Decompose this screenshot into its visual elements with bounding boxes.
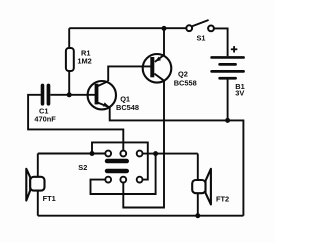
- wire Q1 base: [69, 94, 96, 96]
- svg-text:FT1: FT1: [43, 194, 56, 203]
- transistor Q1 internals: [95, 81, 110, 107]
- wire crossover A3 to B1: [91, 154, 156, 194]
- resistor R1: [66, 28, 74, 95]
- node rail junction: [162, 26, 167, 31]
- svg-text:BC548: BC548: [116, 103, 139, 112]
- node FT2 branch junction: [153, 151, 158, 156]
- speaker FT1: [26, 169, 44, 201]
- wire top rail V+: [69, 27, 189, 29]
- svg-text:FT2: FT2: [216, 194, 229, 203]
- label S2: [78, 163, 87, 172]
- wire right branch to bottom rail: [228, 120, 244, 215]
- label Q1 value: [116, 95, 139, 113]
- wire Q1 emitter rail: [110, 107, 228, 120]
- wire FT1 branch: [37, 154, 39, 216]
- svg-text:3V: 3V: [235, 89, 244, 98]
- transistor Q2: [143, 54, 172, 83]
- capacitor C1: [41, 84, 69, 106]
- switch S2: [105, 151, 143, 183]
- transistor Q2 internals: [150, 55, 164, 81]
- label Q2 value: [174, 70, 197, 88]
- switch S1: [186, 20, 214, 31]
- label C1 value: [34, 107, 56, 124]
- wire crossover A1 to B3: [92, 142, 148, 179]
- wire Q2 emitter to rail: [163, 28, 165, 56]
- wire Q1 collector to Q2 base: [108, 66, 150, 81]
- label R1 value: [77, 49, 91, 66]
- svg-text:S2: S2: [78, 163, 87, 172]
- node FT2 bottom junction: [195, 213, 200, 218]
- wire S1 to battery positive: [214, 28, 228, 56]
- svg-text:BC558: BC558: [174, 78, 197, 87]
- svg-text:1M2: 1M2: [77, 57, 91, 66]
- node FT1 branch junction: [90, 151, 95, 156]
- node battery junction: [225, 118, 230, 123]
- node base junction: [67, 92, 72, 97]
- battery B1: [210, 46, 245, 80]
- svg-text:Q1: Q1: [120, 95, 130, 104]
- wire battery negative: [227, 79, 229, 120]
- svg-text:S1: S1: [197, 33, 206, 42]
- label S1: [197, 33, 206, 42]
- label B1 value: [235, 82, 244, 98]
- svg-text:Q2: Q2: [178, 70, 188, 79]
- transistor Q1: [88, 81, 116, 109]
- wire bottom rail: [38, 215, 244, 217]
- wire S2 contact A3 to FT2: [140, 153, 198, 155]
- svg-text:470nF: 470nF: [34, 115, 56, 124]
- wire FT1 to S2 contact A1: [38, 153, 108, 155]
- speaker FT2: [192, 154, 211, 216]
- label FT2: [216, 194, 229, 203]
- label FT1: [43, 194, 56, 203]
- wire C1 to S2 pole A: [28, 95, 123, 154]
- wire Q2 collector to S2 pole B: [123, 81, 164, 208]
